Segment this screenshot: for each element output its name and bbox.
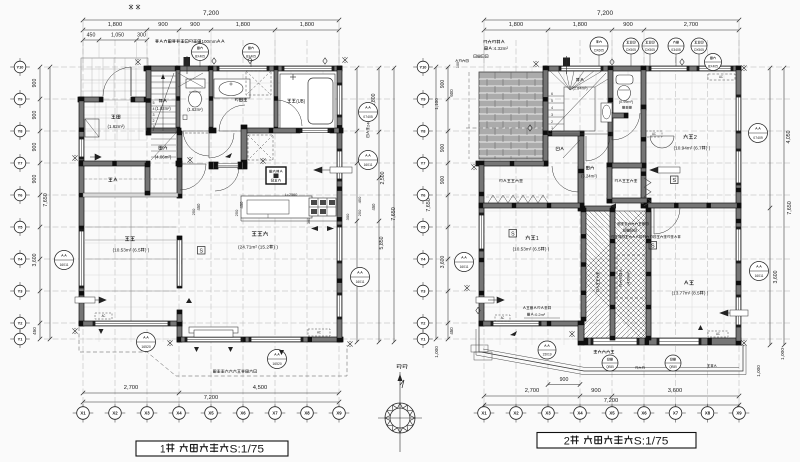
1F stair label <box>159 99 167 103</box>
2F top right dashed box <box>708 74 735 80</box>
module grid 1F <box>44 40 395 406</box>
1F title box <box>136 441 288 456</box>
svg-text:S: S <box>199 249 203 255</box>
1F tatami lines washitsu <box>85 197 176 321</box>
2F bedroom1 label <box>526 235 539 242</box>
svg-text:4,500: 4,500 <box>253 385 268 391</box>
1F AC box <box>95 313 112 319</box>
1F kitchen label <box>285 193 298 197</box>
svg-text:900: 900 <box>591 388 601 394</box>
svg-text:DX505: DX505 <box>694 48 704 52</box>
svg-text:X6: X6 <box>240 411 246 416</box>
svg-text:1,000: 1,000 <box>780 348 786 360</box>
1F kome marks <box>135 59 140 65</box>
1F kitchen stove <box>309 198 336 216</box>
2F left outer wall <box>479 161 484 326</box>
1F kitchen dims <box>196 203 201 211</box>
2F monoire <box>556 147 564 150</box>
svg-text:(0.99m²): (0.99m²) <box>619 100 634 104</box>
1F wall diamonds <box>248 57 252 63</box>
1F top dimension row2 <box>83 29 339 31</box>
svg-text:03405: 03405 <box>671 48 681 52</box>
svg-text:450: 450 <box>357 196 362 203</box>
1F shoe cabinet <box>85 119 99 137</box>
1F step wall <box>177 321 182 342</box>
svg-text:(2.84m²): (2.84m²) <box>573 85 589 90</box>
1F toilet dashed door <box>181 132 209 134</box>
svg-text:X4: X4 <box>176 411 182 416</box>
svg-text:900: 900 <box>440 144 446 153</box>
1F bath door <box>278 100 302 126</box>
2F top window bedroom2b <box>698 66 732 71</box>
2F skylight dashed <box>617 255 646 298</box>
1F top dimension 7200 <box>83 19 339 21</box>
1F window id circle left <box>55 251 74 270</box>
2F S box <box>649 242 657 250</box>
1F genkan top wall <box>78 97 103 102</box>
svg-text:Y5: Y5 <box>18 224 24 229</box>
svg-text:2: 2 <box>694 135 697 141</box>
2F right window bedroom <box>736 228 741 262</box>
svg-text:1: 1 <box>536 236 539 242</box>
1F right wall window bath <box>337 84 342 116</box>
1F right dimension column <box>356 68 358 342</box>
svg-text::4.32m²: :4.32m² <box>492 46 508 51</box>
1F LDK bottom window1 <box>186 337 242 342</box>
2F bedroom1 bottom window <box>492 321 540 326</box>
2F closet left zigzag <box>488 195 548 203</box>
1F stairs <box>151 71 176 133</box>
svg-text:(UB): (UB) <box>296 99 305 105</box>
2F X axis circles <box>474 412 495 414</box>
svg-text:X5: X5 <box>208 411 214 416</box>
2F balcony hang circles <box>602 355 618 371</box>
2F closet right zigzag <box>644 178 651 206</box>
1F oshiire washitsu divider <box>83 193 178 197</box>
1F right wall vent arrow <box>314 167 340 173</box>
svg-text:450: 450 <box>196 203 201 211</box>
svg-text:(1.62m²): (1.62m²) <box>187 107 203 112</box>
svg-text:(4.09m²): (4.09m²) <box>625 270 630 286</box>
1F hallway label <box>159 146 168 150</box>
1F hall south wall with door <box>209 162 218 169</box>
2F closet right left wall <box>607 163 612 203</box>
svg-text:Y9: Y9 <box>18 96 24 101</box>
2F left wall vent <box>476 297 494 303</box>
svg-text:(3.24m²): (3.24m²) <box>581 174 597 179</box>
1F bath shower symbol <box>292 74 294 80</box>
1F window id circle right1 <box>359 103 378 122</box>
2F top outer wall <box>545 66 741 71</box>
svg-text:Y6: Y6 <box>421 192 427 197</box>
1F washitsu right wall <box>177 163 182 198</box>
svg-text:5: 5 <box>551 99 553 103</box>
1F stair bottom treads <box>151 138 176 140</box>
1F hall east wall <box>241 125 247 164</box>
1F top outer wall <box>144 66 342 71</box>
svg-text:1: 1 <box>160 444 166 456</box>
1F washitsu S mark <box>198 247 206 255</box>
svg-text:DX605: DX605 <box>594 49 604 53</box>
1F entry door arc <box>103 67 131 96</box>
2F closet left label <box>499 179 523 183</box>
svg-text:16011: 16011 <box>460 265 469 269</box>
1F window id circle right3 <box>351 268 370 287</box>
svg-text:AC: AC <box>501 316 505 320</box>
svg-text:Y6: Y6 <box>18 192 24 197</box>
1F right wall window LDK <box>337 226 342 262</box>
2F top circles <box>590 37 608 55</box>
1F balcony overhang dashed outline <box>79 327 347 376</box>
2F bedroom1 door arc <box>552 166 578 192</box>
svg-text:2,700: 2,700 <box>684 22 699 28</box>
svg-text:Y1: Y1 <box>18 336 24 341</box>
svg-text:S: S <box>672 178 676 184</box>
2F bedroom label <box>684 281 693 285</box>
svg-text:Y10: Y10 <box>420 64 427 69</box>
1F understair wall <box>145 163 150 195</box>
svg-text:450: 450 <box>449 327 454 335</box>
2F annotation top texts <box>618 222 649 225</box>
1F hall LDK wall <box>177 131 182 162</box>
svg-text:Y4: Y4 <box>421 256 427 261</box>
1F top dimension row3 <box>83 39 147 41</box>
svg-text:900: 900 <box>158 22 168 28</box>
2F Y axis circles <box>413 66 433 68</box>
2F top window bedroom2a <box>650 66 688 71</box>
svg-text:BX405: BX405 <box>708 65 718 69</box>
2F note attic storage <box>483 40 504 44</box>
svg-text:Y8: Y8 <box>421 128 427 133</box>
1F bottom window arrows <box>99 329 285 355</box>
svg-text:300: 300 <box>345 213 350 220</box>
svg-text:900: 900 <box>32 79 38 88</box>
1F note text handrail <box>155 39 224 44</box>
svg-text:) ): ) ) <box>704 291 709 296</box>
2F left wall window <box>479 214 484 250</box>
svg-text:BX405: BX405 <box>246 55 256 59</box>
svg-text:L=2560: L=2560 <box>285 193 298 197</box>
2F arrow marks <box>650 167 668 173</box>
svg-text:900: 900 <box>32 175 38 184</box>
svg-text:300: 300 <box>137 33 146 39</box>
1F genkan label <box>111 115 120 119</box>
1F second dashed box <box>248 135 273 160</box>
svg-text:QB55: QB55 <box>669 365 677 369</box>
svg-text::0.2m²: :0.2m² <box>534 312 546 317</box>
1F top circles <box>192 44 209 61</box>
2F stair right wall <box>608 66 613 168</box>
2F left dimension column <box>447 67 449 339</box>
2F bedroom1 AC box <box>495 315 510 321</box>
svg-text:Y3: Y3 <box>421 288 427 293</box>
svg-text:Y7: Y7 <box>421 160 426 165</box>
svg-text:900: 900 <box>32 111 38 120</box>
svg-text:QB55: QB55 <box>606 365 614 369</box>
1F window id circle bottom1 <box>137 333 156 352</box>
1F Y axis circles <box>10 66 30 68</box>
svg-text:Y5: Y5 <box>421 224 427 229</box>
svg-text:7,200: 7,200 <box>604 398 619 404</box>
svg-text:16011: 16011 <box>60 263 69 267</box>
2F south window balcony door <box>592 338 638 345</box>
svg-text:X3: X3 <box>545 411 551 416</box>
1F washitsu bottom wall <box>79 321 182 326</box>
svg-text:900: 900 <box>190 22 200 28</box>
svg-text:Y3: Y3 <box>18 288 24 293</box>
svg-text:16520: 16520 <box>272 362 281 366</box>
module grid 2F <box>436 40 790 406</box>
2F stair label <box>576 78 583 82</box>
top guide stems <box>99 30 644 66</box>
1F right wall window middle <box>337 150 342 180</box>
svg-text:) ): ) ) <box>273 245 278 251</box>
svg-text:(24.71m² (15.2: (24.71m² (15.2 <box>238 245 269 251</box>
1F LDK door arc <box>215 167 239 191</box>
svg-text:5,850: 5,850 <box>379 236 385 249</box>
svg-text:Y4: Y4 <box>18 256 24 261</box>
2F top dimension 7200 <box>484 19 739 21</box>
1F left wall window washitsu <box>79 230 84 287</box>
1F arrow marks <box>90 154 101 160</box>
svg-text:5: 5 <box>153 101 155 105</box>
2F washbasin <box>601 103 612 122</box>
svg-text:Y10: Y10 <box>17 64 24 69</box>
svg-text:2: 2 <box>153 119 155 123</box>
svg-text:900: 900 <box>623 22 633 28</box>
2F right dimension column <box>769 68 771 345</box>
2F AC boxes <box>708 331 728 337</box>
svg-text:2: 2 <box>564 436 570 448</box>
1F hallway door arc2 <box>180 164 206 190</box>
1F X axis circles <box>73 412 94 414</box>
svg-text:BX405: BX405 <box>195 55 205 59</box>
svg-text:AC: AC <box>317 331 321 335</box>
svg-text:7,650: 7,650 <box>43 193 49 207</box>
svg-text:DX505: DX505 <box>626 48 636 52</box>
svg-text:900: 900 <box>560 377 569 383</box>
svg-text:2,700: 2,700 <box>124 385 139 391</box>
svg-text:X3: X3 <box>144 411 150 416</box>
svg-text:3: 3 <box>551 113 553 117</box>
1F washitsu label <box>125 237 135 241</box>
2F bedroom2 left wall <box>641 105 646 208</box>
1F toilet washroom wall <box>209 66 213 131</box>
2F closet right bottom wall <box>607 198 651 203</box>
svg-text:1,800: 1,800 <box>108 22 123 28</box>
1F left dimension column <box>39 67 41 339</box>
2F hallway label <box>586 166 594 170</box>
1F kitchen counter <box>241 196 312 218</box>
svg-text:X8: X8 <box>304 411 310 416</box>
svg-text:600: 600 <box>449 89 454 97</box>
svg-text:X6: X6 <box>641 411 647 416</box>
compass label <box>397 365 407 369</box>
1F right wall window LDK2 <box>337 294 342 318</box>
top left tick marks <box>129 5 133 10</box>
1F toilet <box>186 79 205 88</box>
svg-text:16011: 16011 <box>364 163 373 167</box>
1F oshiire interior lines <box>84 178 177 180</box>
2F crosshatch mid wall <box>610 208 615 340</box>
1F stair up arrow <box>184 57 191 67</box>
1F washitsu fusuma door <box>178 240 182 286</box>
svg-text:2: 2 <box>551 120 553 124</box>
svg-text:900: 900 <box>32 143 38 152</box>
svg-text:(1.62m²): (1.62m²) <box>108 124 126 129</box>
1F bathroom <box>280 74 335 128</box>
1F left wall window genkan <box>79 138 84 158</box>
svg-text:1,100: 1,100 <box>434 98 439 110</box>
svg-text:X4: X4 <box>577 411 583 416</box>
svg-text:450: 450 <box>239 201 244 209</box>
svg-text:7,650: 7,650 <box>391 207 397 221</box>
compass north <box>385 403 415 433</box>
2F west band wall <box>476 161 548 166</box>
2F bedroom2 door arc <box>650 136 674 148</box>
svg-text:X5: X5 <box>609 411 615 416</box>
2F balcony id circle <box>538 341 556 359</box>
svg-text:3,600: 3,600 <box>32 253 38 266</box>
svg-text:1,000: 1,000 <box>434 346 439 358</box>
1F washroom sink <box>214 79 250 98</box>
2F closet right top wall <box>607 163 646 168</box>
svg-text:450: 450 <box>371 203 376 211</box>
2F right window bedroom2 <box>736 96 741 132</box>
svg-text:4: 4 <box>551 106 553 110</box>
1F top wall window bath <box>283 66 333 71</box>
1F bottom dimension 7200 <box>83 401 339 403</box>
2F roof eaves dashed <box>466 127 543 129</box>
1F toilet paper holder <box>183 115 187 120</box>
2F closet left bottom wall <box>479 203 584 208</box>
2F left upper wall <box>543 66 548 166</box>
svg-text:X1: X1 <box>481 411 487 416</box>
1F toilet label <box>187 107 203 112</box>
svg-text:900: 900 <box>440 176 446 185</box>
2F bedroom door arc <box>654 208 680 234</box>
svg-text:Y7: Y7 <box>18 160 23 165</box>
2F south wall <box>584 338 741 345</box>
2F bottom dimension row1 <box>484 395 739 397</box>
2F closet right label <box>615 179 637 182</box>
svg-text:2,500: 2,500 <box>380 171 386 184</box>
svg-text:250: 250 <box>357 209 362 216</box>
svg-text:S:1/75: S:1/75 <box>230 444 265 456</box>
1F LDK bottom window2 <box>250 337 302 342</box>
2F stair bottom wall <box>548 131 584 136</box>
2F toilet bottom wall <box>608 113 628 118</box>
1F LDK bottom wall <box>177 337 343 342</box>
svg-text:Y2: Y2 <box>18 320 24 325</box>
svg-text:AC: AC <box>652 132 656 136</box>
svg-text:7,200: 7,200 <box>597 10 613 17</box>
1F window platform <box>189 327 238 333</box>
2F stair arrow <box>563 58 570 67</box>
svg-text:4,050: 4,050 <box>786 130 792 143</box>
1F washroom label <box>235 98 247 102</box>
2F stairs winder <box>548 71 608 134</box>
2F area note <box>523 306 551 309</box>
svg-text:450: 450 <box>87 33 96 39</box>
svg-text:3,600: 3,600 <box>440 256 446 269</box>
1F hallway door arc1 <box>209 133 234 158</box>
svg-text:X1: X1 <box>80 411 86 416</box>
1F stair toilet wall <box>176 66 180 131</box>
svg-text:16011: 16011 <box>356 280 365 284</box>
svg-text:(1.82m²): (1.82m²) <box>155 106 171 111</box>
svg-text:250: 250 <box>191 208 196 215</box>
2F crosshatch top wall <box>581 206 615 211</box>
svg-text:450: 450 <box>32 327 37 335</box>
svg-text:Y9: Y9 <box>421 96 427 101</box>
svg-text:16011: 16011 <box>755 274 764 278</box>
svg-text:7,650: 7,650 <box>787 201 793 215</box>
svg-text:3,600: 3,600 <box>773 270 779 283</box>
2F balcony label <box>594 350 614 354</box>
svg-text:(10.53m² (6.5: (10.53m² (6.5 <box>513 247 541 252</box>
svg-text:Y2: Y2 <box>421 320 427 325</box>
2F balcony outline <box>479 326 743 371</box>
svg-text:Y1: Y1 <box>421 336 427 341</box>
svg-text:AC: AC <box>716 332 720 336</box>
svg-text:S:1/75: S:1/75 <box>634 436 669 448</box>
1F washroom bath wall <box>274 66 278 131</box>
1F door swing triangle <box>225 153 232 158</box>
svg-text:4: 4 <box>153 107 155 111</box>
2F top window stair <box>560 66 602 71</box>
svg-text:Y8: Y8 <box>18 128 24 133</box>
svg-text:15019: 15019 <box>543 353 552 357</box>
svg-text:7,200: 7,200 <box>203 10 219 17</box>
2F bedroom1 bottom wall <box>479 321 584 326</box>
svg-text:) ): ) ) <box>706 146 711 151</box>
2F kome marks <box>533 61 538 67</box>
svg-text:100: 100 <box>456 62 460 68</box>
svg-text:X8: X8 <box>705 411 711 416</box>
svg-text:AC: AC <box>102 314 106 318</box>
svg-text:3: 3 <box>153 113 155 117</box>
svg-text:) ): ) ) <box>545 247 550 252</box>
2F hall west wall <box>578 131 584 211</box>
1F oshiire label <box>108 178 117 182</box>
svg-text:1,800: 1,800 <box>300 22 315 28</box>
svg-text:3,600: 3,600 <box>668 388 683 394</box>
svg-text:DX505: DX505 <box>645 48 655 52</box>
1F stair left wall <box>146 66 151 135</box>
svg-text:7,650: 7,650 <box>426 198 432 212</box>
svg-text:X7: X7 <box>272 411 278 416</box>
2F top dimension row2 <box>484 29 739 31</box>
1F toilet shelf diagonal <box>178 73 203 87</box>
svg-text:AC: AC <box>719 75 723 79</box>
svg-text:) ): ) ) <box>145 248 150 253</box>
svg-text:1,000: 1,000 <box>756 365 761 377</box>
2F bottom dimension 7200 <box>484 404 739 406</box>
2F window id circles <box>455 253 474 272</box>
svg-text:(13.77m² (8.5: (13.77m² (8.5 <box>672 291 700 296</box>
1F bottom dimension row1 <box>83 392 339 394</box>
2F toilet <box>616 75 633 84</box>
2F attic rotated labels <box>619 270 622 287</box>
svg-text:07405: 07405 <box>363 115 373 119</box>
svg-text:2,700: 2,700 <box>525 388 540 394</box>
svg-text:1,800: 1,800 <box>509 22 524 28</box>
svg-text:X7: X7 <box>673 411 679 416</box>
1F kitchen lower band <box>241 220 337 222</box>
2F hallway door arc <box>586 136 610 161</box>
svg-text:X9: X9 <box>736 411 742 416</box>
